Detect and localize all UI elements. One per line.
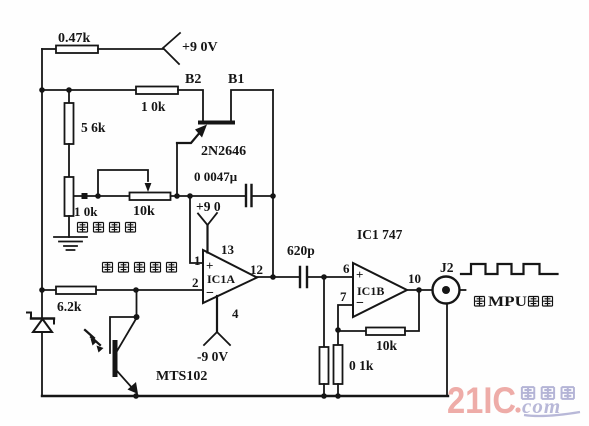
watermark dianziwang CJK <box>522 387 574 399</box>
node junction pot right <box>174 193 180 199</box>
wire pot to cap 0.0047 <box>171 195 247 197</box>
resistor 0.47k <box>56 46 98 54</box>
square wave symbol <box>461 264 558 274</box>
svg-text:7: 7 <box>340 289 347 304</box>
transistor Q1 2N2646 base bar <box>198 121 235 125</box>
svg-text:1 0k: 1 0k <box>141 99 166 114</box>
resistor 0.1k A <box>320 347 329 384</box>
node junction pin6 branch <box>321 274 327 280</box>
svg-text:0 1k: 0 1k <box>349 358 374 373</box>
svg-text:1: 1 <box>194 253 201 268</box>
wiper arrowhead <box>145 183 152 192</box>
node junction left rail y90 <box>39 87 45 93</box>
wire feedback right up <box>405 290 419 331</box>
potentiometer 10k body <box>130 193 171 201</box>
svg-text:4: 4 <box>232 306 239 321</box>
svg-text:6.2k: 6.2k <box>57 299 82 314</box>
svg-text:+9 0V: +9 0V <box>182 40 218 55</box>
wire rail2 horizontal y90 <box>42 89 136 91</box>
svg-text:MPU: MPU <box>488 294 527 310</box>
svg-text:-9 0V: -9 0V <box>197 349 228 364</box>
wire 620p to pin6 <box>307 276 353 278</box>
wire bottom rail <box>42 395 448 397</box>
wire to 0.1k B <box>337 330 339 345</box>
svg-text:J2: J2 <box>440 260 454 275</box>
svg-text:IC1B: IC1B <box>357 284 384 298</box>
node square junction <box>82 193 88 199</box>
svg-text:10k: 10k <box>133 204 155 219</box>
resistor R6 10k feedback <box>366 328 405 336</box>
wire wiper loop <box>98 170 148 196</box>
wire 5.6k stub top <box>68 90 70 103</box>
capacitor C1 0.0047u <box>246 185 252 206</box>
resistor 1.0k horizontal <box>136 87 178 95</box>
wire pin2 input y290 <box>42 289 203 291</box>
wire to ground <box>68 216 70 237</box>
svg-text:12: 12 <box>250 262 263 277</box>
wire down to 0.1k A <box>323 277 325 347</box>
wire right vertical B1 to output <box>272 90 274 277</box>
node junction pin7 feedback <box>335 327 341 333</box>
transistor Q2 MTS102 <box>136 290 138 317</box>
node junction 0.1kB rail <box>335 393 341 399</box>
node junction MTS collector branch <box>133 287 139 293</box>
svg-text:0 0047μ: 0 0047μ <box>194 169 238 184</box>
connector J2 <box>433 277 460 304</box>
wire 0.1k B bottom <box>337 384 339 396</box>
wire 0.1k A bottom <box>323 384 325 396</box>
ground <box>54 237 87 250</box>
node junction pin1 branch <box>187 193 193 199</box>
svg-text:5 6k: 5 6k <box>81 120 106 135</box>
wire 0.47k to +9V arrow <box>98 48 163 50</box>
+9.0 arrow IC1A <box>198 213 217 225</box>
svg-text:−: − <box>356 296 364 311</box>
svg-text:+9 0: +9 0 <box>196 199 221 214</box>
svg-text:B1: B1 <box>228 72 244 87</box>
wire pin4 supply <box>216 296 218 332</box>
wire J2 down <box>446 304 448 397</box>
zener diode VD1 <box>31 317 54 319</box>
svg-text:2N2646: 2N2646 <box>201 144 246 159</box>
label to MPU output <box>475 297 485 307</box>
svg-text:IC1 747: IC1 747 <box>357 227 403 242</box>
op-amp U1 IC1A triangle <box>203 250 257 303</box>
node junction wiper tie <box>95 193 101 199</box>
wire cap to right vertical <box>252 195 274 197</box>
node junction cap right <box>270 193 276 199</box>
wire left rail vertical <box>41 49 43 396</box>
resistor 0.1k B <box>334 345 343 384</box>
svg-text:−: − <box>206 286 214 301</box>
resistor 6.2k <box>56 287 96 295</box>
wire B1 top segment <box>231 90 273 120</box>
svg-text:+: + <box>206 258 213 273</box>
node junction IC1A out <box>270 274 276 280</box>
svg-text:IC1A: IC1A <box>207 272 235 286</box>
label full-scale adjust CJK <box>103 263 177 273</box>
-9.0V arrow IC1A <box>204 332 230 345</box>
svg-text:MTS102: MTS102 <box>156 369 207 384</box>
label zero adjust CJK <box>78 223 136 233</box>
svg-text:21IC: 21IC <box>447 380 516 421</box>
wire 1.0k to B2 corner <box>178 90 203 120</box>
wire IC1B output <box>407 289 431 291</box>
svg-text:10k: 10k <box>376 338 398 353</box>
node junction MTS emitter bottom <box>133 393 139 399</box>
svg-text:13: 13 <box>221 242 235 257</box>
wire emitter vertical <box>176 143 178 196</box>
wire feedback left <box>338 330 366 332</box>
node junction 5.6k top <box>66 87 72 93</box>
+9.0V supply arrow <box>163 33 180 64</box>
svg-text:1 0k: 1 0k <box>74 204 98 219</box>
wire y196 from 1.0k to pot <box>74 195 129 197</box>
wire pin13 supply <box>206 225 208 253</box>
wire pin7 stub <box>338 305 353 330</box>
svg-text:6: 6 <box>343 261 350 276</box>
svg-text:+: + <box>356 267 363 282</box>
light arrows <box>85 330 100 345</box>
svg-text:0.47k: 0.47k <box>58 31 91 46</box>
resistor 5.6k <box>65 103 74 144</box>
node junction left rail 6.2k <box>39 287 45 293</box>
wire pin1 down-right <box>190 196 203 263</box>
transistor Q1 emitter lead with arrow <box>177 131 202 144</box>
op-amp U2 IC1B triangle <box>353 263 407 317</box>
resistor 1.0k vertical <box>65 177 74 216</box>
wire 5.6k to 1.0k vertical <box>68 144 70 177</box>
wire IC1A output <box>257 276 300 278</box>
svg-text:B2: B2 <box>185 72 201 87</box>
svg-text:620p: 620p <box>287 243 315 258</box>
node junction 0.1kA rail <box>321 393 327 399</box>
svg-text:2: 2 <box>192 275 199 290</box>
capacitor C3 620p <box>300 267 307 287</box>
svg-text:10: 10 <box>408 271 421 286</box>
node junction output J2 <box>416 287 422 293</box>
wire top-left horizontal to 0.47k <box>42 48 56 50</box>
